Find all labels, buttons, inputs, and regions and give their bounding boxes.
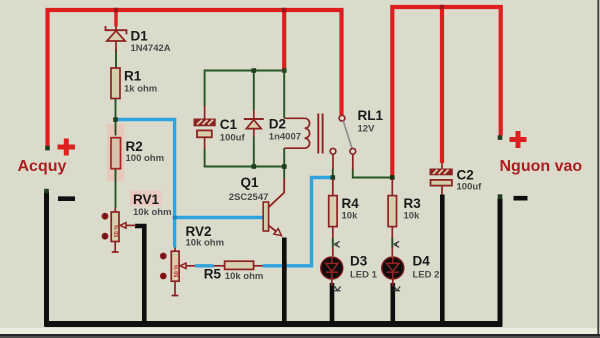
pin label A (D4) — [394, 241, 399, 247]
svg-text:Acquy: Acquy — [18, 158, 67, 175]
svg-text:12V: 12V — [358, 123, 376, 134]
svg-text:2SC2547: 2SC2547 — [229, 192, 269, 203]
svg-text:R3: R3 — [404, 196, 422, 211]
node: battery - terminal — [44, 189, 49, 194]
wire: R1 to R2 through node (green) — [115, 99, 117, 136]
wire: C2 bottom to ground (black) — [440, 195, 445, 324]
svg-text:C1: C1 — [220, 117, 238, 132]
wire: snubber loop (green) — [205, 71, 285, 179]
transistor Q1 — [263, 179, 284, 236]
node: D2 top junction — [252, 68, 257, 73]
LED D3 — [321, 257, 343, 286]
wire: snubber loop feed from rail (red) — [282, 10, 286, 70]
wire: R2 to RV1 (green) — [115, 169, 117, 208]
diode D2 — [244, 110, 264, 137]
wire: R5 right pin (dark red) — [254, 265, 264, 267]
svg-text:2: 2 — [162, 274, 165, 280]
svg-text:1N4742A: 1N4742A — [131, 43, 171, 54]
svg-text:1: 1 — [162, 254, 165, 260]
capacitor C2 — [430, 163, 452, 195]
svg-text:C2: C2 — [457, 167, 474, 182]
node: rail junction at D1 — [114, 8, 118, 12]
wire: Q1 emitter overlay at blue crossing (black) — [282, 261, 287, 271]
wire: node above R2 to Q1 base (blue) — [116, 120, 264, 248]
relay switch RL1 pole — [339, 115, 345, 121]
wire: D1 to R1 (green) — [115, 49, 117, 68]
svg-text:100uf: 100uf — [457, 181, 483, 192]
highlight strip over R2 — [107, 124, 124, 181]
supply - symbol — [514, 196, 528, 201]
potentiometer RV1 — [111, 208, 136, 252]
svg-text:10k ohm: 10k ohm — [225, 271, 264, 282]
wire: ground bus (black) — [47, 192, 501, 325]
svg-text:D4: D4 — [413, 254, 431, 269]
pin label K (D4) — [394, 286, 400, 291]
node: blue tee at Q1 base — [173, 216, 177, 220]
relay switch blade — [343, 121, 352, 149]
svg-text:1: 1 — [103, 215, 106, 221]
supply + symbol — [510, 131, 527, 148]
resistor R5 — [225, 261, 254, 269]
svg-text:1k ohm: 1k ohm — [124, 83, 157, 94]
label RV1 — [130, 191, 162, 208]
zener diode D1 — [106, 10, 127, 52]
svg-text:R2: R2 — [126, 139, 143, 154]
node: relay contact to R4 junction — [331, 175, 336, 180]
svg-text:100uf: 100uf — [220, 132, 246, 143]
wire: RV2 wiper lead (dark red) — [186, 265, 196, 267]
node: supply + terminal — [498, 135, 503, 140]
wire: Q1 emitter to ground (black) — [282, 238, 287, 324]
svg-text:R1: R1 — [124, 68, 142, 83]
svg-text:1n4007: 1n4007 — [269, 131, 301, 142]
svg-text:50 %: 50 % — [114, 225, 120, 238]
potentiometer RV2 — [171, 248, 186, 296]
svg-text:R4: R4 — [342, 196, 360, 211]
wire: D3 cathode to ground (black) — [330, 283, 335, 323]
svg-text:LED 2: LED 2 — [413, 269, 440, 280]
wire: battery + rail to relay pole (red) — [48, 10, 342, 148]
svg-text:10k ohm: 10k ohm — [186, 238, 225, 249]
node: snubber feed junction — [282, 68, 287, 73]
svg-text:D1: D1 — [131, 28, 149, 43]
relay contact left — [330, 148, 336, 169]
node: supply - terminal — [498, 194, 503, 199]
node: rail junction at C2 — [440, 5, 444, 9]
pin label A (D3) — [334, 241, 339, 247]
right window border line — [597, 0, 599, 334]
node: loop bottom right corner — [282, 164, 287, 169]
svg-text:R5: R5 — [204, 266, 222, 281]
node: R3 top junction — [390, 175, 395, 180]
wire: R5 left pin (dark red) — [213, 265, 225, 267]
relay coil RL1 — [284, 114, 322, 154]
svg-text:LED 1: LED 1 — [350, 269, 378, 280]
bottom dark bar — [0, 328, 600, 338]
node: rail junction at snubber feed — [282, 8, 286, 12]
svg-text:10k: 10k — [342, 210, 359, 221]
battery + symbol — [58, 139, 76, 156]
svg-text:D2: D2 — [269, 117, 286, 132]
svg-text:50 %: 50 % — [174, 265, 180, 278]
pin 2 marker RV2 — [160, 273, 167, 281]
wire: D4 cathode to ground (black) — [390, 283, 395, 323]
pin 2 marker RV1 — [102, 233, 109, 241]
svg-text:10k ohm: 10k ohm — [133, 207, 172, 218]
pin label K (D3) — [335, 286, 341, 291]
relay contact right — [350, 148, 356, 170]
svg-text:2: 2 — [103, 235, 106, 241]
wire: relay right contact to R3 node (green) — [353, 170, 390, 178]
svg-text:Nguon vao: Nguon vao — [500, 158, 583, 175]
svg-text:10k: 10k — [404, 210, 421, 221]
node A junction above R2 — [113, 117, 118, 122]
resistor R3 — [388, 179, 396, 256]
wire: relay left contact to R4 node (green) — [332, 169, 334, 178]
svg-text:Q1: Q1 — [241, 175, 260, 190]
LED D4 — [382, 257, 404, 286]
pin 1 marker RV1 — [102, 213, 109, 221]
wire: right supply rail (red) — [392, 7, 500, 178]
svg-text:RV1: RV1 — [133, 192, 160, 207]
wire: R3 to D4 (green segment) — [391, 238, 393, 247]
wire: RV2 wiper via R5 to relay contact node (blue) — [195, 178, 331, 266]
svg-text:D3: D3 — [350, 254, 368, 269]
wire: R4 to D3 (green segment) — [332, 238, 334, 247]
battery - symbol — [58, 196, 75, 201]
resistor R1 — [111, 68, 120, 99]
resistor R4 — [329, 179, 337, 256]
pin 1 marker RV2 — [160, 253, 167, 261]
node: battery + terminal — [45, 146, 50, 151]
svg-text:100 ohm: 100 ohm — [126, 153, 165, 164]
wire: RV1 wiper to ground (black) — [135, 226, 144, 323]
capacitor C1 — [194, 106, 215, 149]
node: D2 bottom junction — [252, 164, 257, 169]
svg-text:RL1: RL1 — [358, 108, 384, 123]
wire: ground bus horizontal (black) — [45, 321, 503, 327]
wire: C2 feed from rail (red) — [440, 7, 444, 163]
resistor R2 — [111, 138, 121, 169]
